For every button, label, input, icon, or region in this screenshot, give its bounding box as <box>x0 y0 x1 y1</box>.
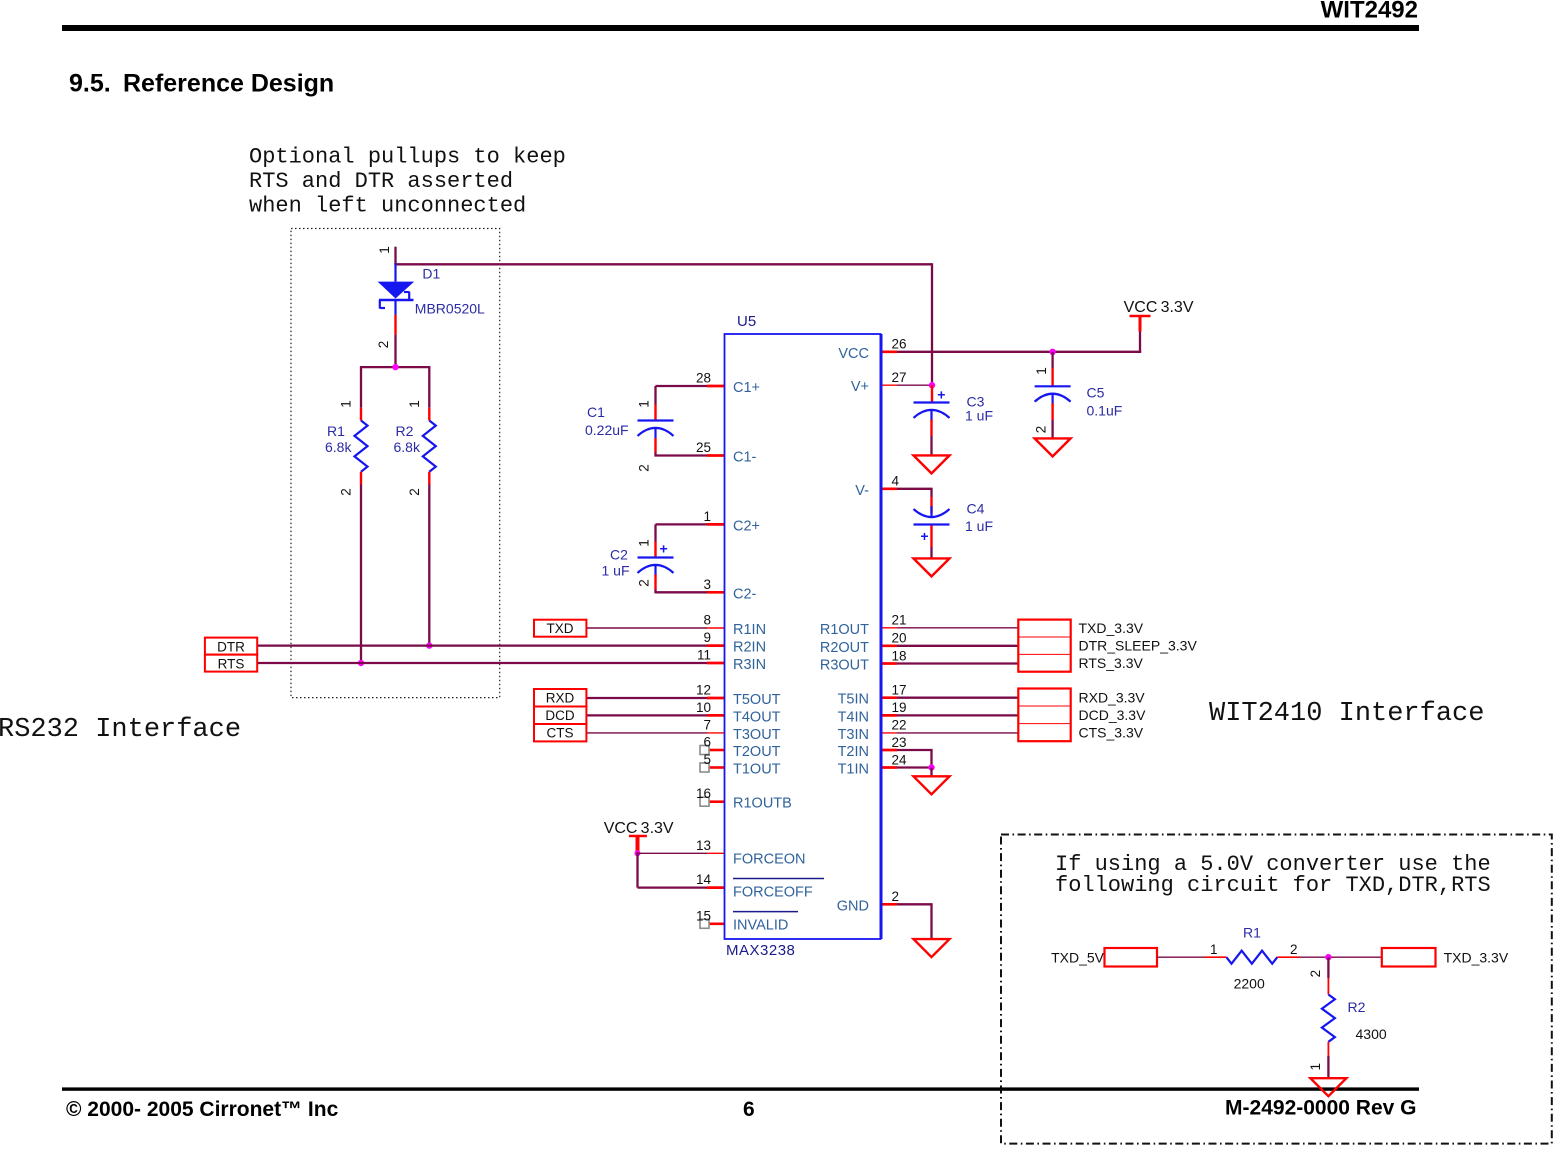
svg-text:14: 14 <box>696 872 712 887</box>
svg-text:DTR: DTR <box>217 640 245 655</box>
svg-text:1: 1 <box>407 400 422 408</box>
svg-text:1: 1 <box>637 539 652 547</box>
svg-text:RTS: RTS <box>218 657 245 672</box>
svg-text:when left unconnected: when left unconnected <box>249 194 526 219</box>
svg-text:T5OUT: T5OUT <box>733 692 781 708</box>
svg-text:R1OUTB: R1OUTB <box>733 796 792 812</box>
svg-text:7: 7 <box>703 717 711 732</box>
svg-text:19: 19 <box>892 700 907 715</box>
svg-text:21: 21 <box>892 613 907 628</box>
svg-text:VCC: VCC <box>838 346 869 362</box>
svg-text:0.22uF: 0.22uF <box>585 422 629 438</box>
svg-text:R2: R2 <box>1348 999 1366 1015</box>
svg-text:V+: V+ <box>851 379 869 395</box>
svg-text:1: 1 <box>1034 367 1049 375</box>
svg-text:MBR0520L: MBR0520L <box>415 301 485 317</box>
svg-text:T4IN: T4IN <box>838 709 869 725</box>
svg-text:6.8k: 6.8k <box>325 439 352 455</box>
svg-text:+: + <box>660 541 668 557</box>
svg-text:26: 26 <box>892 337 907 352</box>
svg-text:MAX3238: MAX3238 <box>726 942 795 959</box>
svg-text:2: 2 <box>339 488 354 496</box>
svg-text:T3IN: T3IN <box>838 727 869 743</box>
svg-text:22: 22 <box>892 718 907 733</box>
svg-text:25: 25 <box>696 440 711 455</box>
svg-text:INVALID: INVALID <box>733 917 788 933</box>
svg-text:D1: D1 <box>422 266 440 282</box>
svg-text:TXD_3.3V: TXD_3.3V <box>1079 620 1144 636</box>
svg-text:20: 20 <box>892 631 907 646</box>
svg-text:27: 27 <box>892 370 907 385</box>
svg-text:RXD_3.3V: RXD_3.3V <box>1079 690 1146 706</box>
svg-text:TXD_5V: TXD_5V <box>1051 950 1105 966</box>
svg-text:5: 5 <box>703 752 711 767</box>
svg-text:Reference Design: Reference Design <box>123 70 334 98</box>
svg-text:9.5.: 9.5. <box>69 70 111 98</box>
svg-text:R2: R2 <box>396 423 414 439</box>
svg-text:DCD_3.3V: DCD_3.3V <box>1079 707 1147 723</box>
svg-text:28: 28 <box>696 371 711 386</box>
svg-text:2: 2 <box>1290 942 1298 957</box>
svg-text:T1IN: T1IN <box>838 762 869 778</box>
svg-text:1: 1 <box>1210 942 1218 957</box>
svg-text:9: 9 <box>703 630 711 645</box>
svg-text:3: 3 <box>703 577 711 592</box>
svg-text:CTS: CTS <box>547 726 574 741</box>
svg-text:1: 1 <box>339 400 354 408</box>
svg-text:17: 17 <box>892 683 907 698</box>
svg-text:23: 23 <box>892 735 907 750</box>
svg-text:R1: R1 <box>327 423 345 439</box>
svg-text:1: 1 <box>637 400 652 408</box>
svg-text:R2IN: R2IN <box>733 640 766 656</box>
svg-text:T2OUT: T2OUT <box>733 744 781 760</box>
svg-text:2: 2 <box>1308 970 1323 978</box>
svg-text:C1+: C1+ <box>733 380 760 396</box>
svg-text:TXD_3.3V: TXD_3.3V <box>1444 950 1509 966</box>
svg-text:R1: R1 <box>1243 925 1261 941</box>
svg-text:C5: C5 <box>1087 385 1105 401</box>
svg-text:1 uF: 1 uF <box>965 408 993 424</box>
svg-text:RS232 Interface: RS232 Interface <box>0 715 241 745</box>
svg-text:8: 8 <box>703 613 711 628</box>
svg-text:U5: U5 <box>737 313 756 330</box>
svg-text:VCC 3.3V: VCC 3.3V <box>604 820 674 837</box>
svg-text:16: 16 <box>696 786 711 801</box>
svg-text:following circuit for TXD,DTR,: following circuit for TXD,DTR,RTS <box>1055 873 1491 898</box>
svg-text:2: 2 <box>1034 426 1049 434</box>
svg-text:C4: C4 <box>967 501 985 517</box>
svg-text:C1: C1 <box>587 404 605 420</box>
svg-text:T5IN: T5IN <box>838 692 869 708</box>
svg-text:R3IN: R3IN <box>733 657 766 673</box>
svg-text:2: 2 <box>376 341 391 349</box>
svg-text:2200: 2200 <box>1234 976 1265 992</box>
svg-text:T3OUT: T3OUT <box>733 727 781 743</box>
svg-text:4: 4 <box>892 474 900 489</box>
svg-text:1: 1 <box>377 246 392 254</box>
svg-text:2: 2 <box>407 488 422 496</box>
svg-text:C1-: C1- <box>733 450 757 466</box>
svg-text:10: 10 <box>696 700 711 715</box>
svg-text:2: 2 <box>637 579 652 587</box>
svg-text:T1OUT: T1OUT <box>733 762 781 778</box>
svg-text:T4OUT: T4OUT <box>733 709 781 725</box>
svg-text:1: 1 <box>703 509 711 524</box>
svg-text:FORCEON: FORCEON <box>733 851 806 867</box>
svg-text:M-2492-0000 Rev G: M-2492-0000 Rev G <box>1225 1097 1416 1120</box>
svg-text:6: 6 <box>703 735 711 750</box>
svg-text:GND: GND <box>837 898 869 914</box>
svg-text:RTS_3.3V: RTS_3.3V <box>1079 655 1144 671</box>
svg-text:WIT2410 Interface: WIT2410 Interface <box>1209 699 1484 729</box>
svg-text:1: 1 <box>1308 1063 1323 1071</box>
svg-text:R1IN: R1IN <box>733 622 766 638</box>
svg-text:R2OUT: R2OUT <box>820 640 869 656</box>
svg-text:11: 11 <box>697 648 711 663</box>
svg-text:© 2000- 2005 Cirronet™ Inc: © 2000- 2005 Cirronet™ Inc <box>66 1098 339 1121</box>
svg-text:TXD: TXD <box>547 621 574 636</box>
svg-text:4300: 4300 <box>1356 1026 1387 1042</box>
svg-text:R3OUT: R3OUT <box>820 658 869 674</box>
svg-text:2: 2 <box>892 889 900 904</box>
svg-text:RTS and DTR asserted: RTS and DTR asserted <box>249 169 513 194</box>
svg-text:+: + <box>937 386 945 402</box>
svg-text:C2: C2 <box>610 547 628 563</box>
svg-text:13: 13 <box>696 838 711 853</box>
svg-text:WIT2492: WIT2492 <box>1321 0 1418 24</box>
svg-text:2: 2 <box>637 464 652 472</box>
svg-text:15: 15 <box>696 908 711 923</box>
svg-text:12: 12 <box>696 683 711 698</box>
svg-text:Optional pullups to keep: Optional pullups to keep <box>249 145 566 170</box>
svg-text:DTR_SLEEP_3.3V: DTR_SLEEP_3.3V <box>1079 638 1198 654</box>
svg-text:1 uF: 1 uF <box>602 563 630 579</box>
svg-text:C2+: C2+ <box>733 518 760 534</box>
svg-text:T2IN: T2IN <box>838 744 869 760</box>
svg-text:V-: V- <box>855 483 869 499</box>
svg-text:0.1uF: 0.1uF <box>1087 403 1123 419</box>
svg-text:FORCEOFF: FORCEOFF <box>733 885 813 901</box>
svg-text:C2-: C2- <box>733 586 757 602</box>
svg-text:24: 24 <box>892 752 908 767</box>
svg-text:6: 6 <box>743 1098 755 1121</box>
svg-text:R1OUT: R1OUT <box>820 622 869 638</box>
svg-text:DCD: DCD <box>545 708 574 723</box>
svg-text:18: 18 <box>892 648 907 663</box>
svg-text:+: + <box>920 528 928 544</box>
svg-text:6.8k: 6.8k <box>394 439 421 455</box>
svg-text:CTS_3.3V: CTS_3.3V <box>1079 725 1144 741</box>
svg-text:1 uF: 1 uF <box>965 518 993 534</box>
svg-text:RXD: RXD <box>546 691 575 706</box>
svg-text:VCC 3.3V: VCC 3.3V <box>1124 299 1194 316</box>
